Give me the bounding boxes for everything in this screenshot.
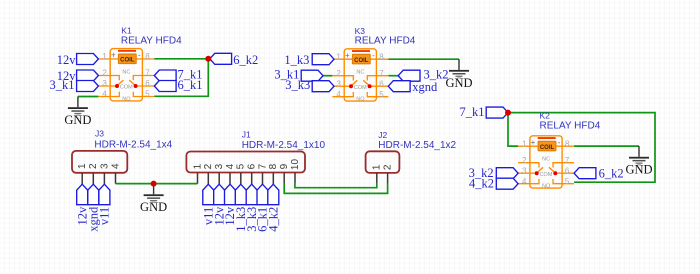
- svg-text:4: 4: [110, 163, 121, 169]
- wire K3 pin7 to flag 3_k2: [388, 75, 398, 77]
- svg-text:5: 5: [236, 163, 247, 169]
- junction dot on GND rail: [151, 181, 157, 187]
- svg-text:K1: K1: [121, 26, 132, 36]
- net flag 7_k1 at junction B: [486, 107, 508, 118]
- net flag 1_k3 at J1 pin5: [235, 184, 246, 205]
- net flag 3_k2 at K3 pin7: [398, 70, 420, 81]
- svg-text:3: 3: [99, 163, 110, 169]
- wire J1 pin10 to J2 pin1: [295, 183, 377, 188]
- svg-text:4_k2: 4_k2: [267, 207, 281, 232]
- J1 body outline: [186, 152, 305, 173]
- net flag xgnd at K3 pin6: [388, 81, 410, 92]
- svg-text:RELAY HFD4: RELAY HFD4: [355, 36, 416, 47]
- net flag 6_k2 at K2 pin6: [574, 168, 596, 179]
- net flag 1_k3 at K3 pin1: [312, 54, 334, 65]
- wire J1 pin9 to J2 pin2: [284, 183, 387, 193]
- junction A dot on K1 pin8 net: [205, 56, 211, 62]
- svg-text:1: 1: [372, 164, 383, 170]
- svg-text:RELAY HFD4: RELAY HFD4: [540, 121, 601, 132]
- svg-text:2: 2: [88, 163, 99, 169]
- svg-text:3_k1: 3_k1: [50, 78, 75, 92]
- junction B dot on 7_k1 net: [505, 110, 511, 116]
- svg-text:3_k3: 3_k3: [285, 78, 310, 92]
- wire K2 pin8 to ground: [574, 145, 639, 147]
- svg-text:1: 1: [192, 163, 203, 169]
- net flag v11 at J1 pin2: [203, 184, 214, 205]
- svg-text:1: 1: [77, 163, 88, 169]
- svg-text:HDR-M-2.54_1x2: HDR-M-2.54_1x2: [378, 140, 456, 151]
- wire K1 pin4 to ground: [78, 96, 99, 98]
- svg-text:3: 3: [214, 163, 225, 169]
- wire junction A down to K1 pin5: [154, 59, 208, 97]
- svg-text:2: 2: [383, 164, 394, 170]
- svg-text:7_k1: 7_k1: [460, 105, 485, 119]
- svg-text:6: 6: [247, 163, 258, 169]
- wire junction B to K2 pin1: [508, 113, 518, 147]
- svg-text:1_k3: 1_k3: [284, 53, 309, 67]
- svg-text:6_k2: 6_k2: [233, 53, 258, 67]
- ground at K2 pin8 net: [625, 146, 652, 177]
- svg-text:8: 8: [268, 163, 279, 169]
- svg-text:7: 7: [257, 163, 268, 169]
- svg-text:K3: K3: [355, 26, 366, 36]
- net flag 4_k2 at K2 pin4: [496, 178, 518, 189]
- svg-text:4_k2: 4_k2: [469, 177, 494, 191]
- net flag 12v at K1 pin1: [77, 54, 99, 65]
- wire junction B to K2 pin5: [508, 113, 655, 183]
- svg-text:6_k2: 6_k2: [599, 166, 624, 180]
- ground at K1 pin4 net: [64, 97, 91, 128]
- wire GND rail J3 pin4 to J1 pin1: [116, 183, 198, 185]
- net flag 6_k1 at K1 pin6: [154, 81, 176, 92]
- svg-text:4: 4: [225, 163, 236, 169]
- relay K3: [332, 49, 388, 103]
- net flag 3_k3 at K3 pin3: [312, 81, 334, 92]
- net flag 12v at K1 pin2: [77, 70, 99, 81]
- net flag 12v at J1 pin4: [225, 184, 236, 205]
- J3 body outline: [72, 151, 127, 173]
- svg-text:K2: K2: [540, 111, 551, 121]
- net flag v11 at J3 pin3: [99, 184, 110, 205]
- net flag 4_k2 at J1 pin8: [268, 184, 279, 205]
- net flag 7_k1 at K1 pin7: [154, 70, 176, 81]
- net flag 12v at J3 pin1: [77, 184, 88, 205]
- J2 body outline: [366, 151, 400, 173]
- svg-text:RELAY HFD4: RELAY HFD4: [121, 36, 182, 47]
- svg-text:6_k1: 6_k1: [178, 78, 203, 92]
- net flag 3_k1 at K3 pin2: [301, 70, 323, 81]
- wire K3 pin8 to ground: [388, 58, 459, 60]
- J2 pin stubs: [377, 173, 388, 183]
- svg-text:J2: J2: [378, 130, 387, 140]
- relay K2: [518, 136, 574, 190]
- svg-text:xgnd: xgnd: [412, 80, 438, 94]
- relay K1: [98, 49, 154, 103]
- ground at bottom GND rail: [140, 184, 167, 215]
- J3 pin stubs: [82, 173, 115, 184]
- net flag 12v at J1 pin3: [214, 184, 225, 205]
- svg-text:HDR-M-2.54_1x10: HDR-M-2.54_1x10: [242, 140, 326, 151]
- wire K3 pin2 to flag 3_k1: [323, 75, 332, 77]
- svg-text:v11: v11: [98, 207, 112, 225]
- svg-text:12v: 12v: [57, 53, 77, 67]
- net flag 3_k3 at J1 pin6: [246, 184, 257, 205]
- wire K1 pin8 to junction A: [154, 58, 208, 60]
- ground at K3 pin8 net: [445, 59, 472, 90]
- net flag 3_k1 at K1 pin3: [77, 81, 99, 92]
- net flag 3_k2 at K2 pin3: [496, 168, 518, 179]
- svg-text:9: 9: [279, 163, 290, 169]
- header J3: [72, 151, 127, 184]
- svg-text:10: 10: [290, 159, 301, 171]
- net flag 6_k2 at junction A: [210, 53, 232, 64]
- header J1: [186, 152, 305, 185]
- svg-text:2: 2: [203, 163, 214, 169]
- svg-text:HDR-M-2.54_1x4: HDR-M-2.54_1x4: [94, 139, 172, 150]
- J1 pin stubs: [198, 173, 296, 185]
- net flag xgnd at J3 pin2: [88, 184, 99, 205]
- net flag 6_k1 at J1 pin7: [257, 184, 268, 205]
- header J2: [366, 151, 400, 183]
- svg-text:J3: J3: [95, 128, 104, 138]
- svg-text:J1: J1: [242, 130, 251, 140]
